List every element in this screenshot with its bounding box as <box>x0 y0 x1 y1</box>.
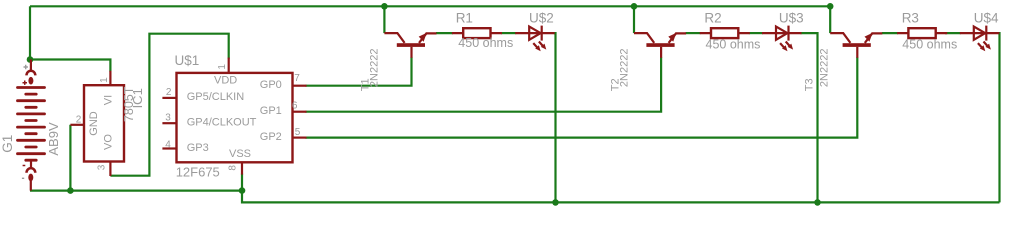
svg-text:4: 4 <box>165 140 171 151</box>
U$1 pin 3 stub <box>162 122 176 124</box>
wire IC1 GND drop <box>69 125 71 191</box>
svg-text:R1: R1 <box>456 11 473 26</box>
svg-text:GP2: GP2 <box>260 131 282 143</box>
U$1 pin 8 VSS stub <box>241 162 243 174</box>
svg-text:U$4: U$4 <box>974 11 999 26</box>
wire U$4 cathode down to rail <box>998 33 999 202</box>
T1 base lead <box>410 47 412 58</box>
svg-text:1: 1 <box>99 77 110 83</box>
svg-text:450 ohms: 450 ohms <box>706 38 761 52</box>
IC1 box <box>84 85 124 161</box>
wire rail to T1 collector <box>383 6 385 33</box>
svg-text:R2: R2 <box>704 11 721 26</box>
T1 base bar <box>397 43 425 47</box>
wire IC1 VO to U$1 VDD <box>110 34 228 176</box>
U$2 light arrow heads <box>535 45 541 51</box>
battery G1 top terminal <box>30 60 32 72</box>
junction battery plus <box>27 56 34 63</box>
U$1 pin 6 stub <box>293 111 307 113</box>
battery plus mark gray <box>24 65 28 69</box>
U$1 pin 7 stub <box>293 85 307 87</box>
junction T1 collector rail <box>381 3 388 10</box>
U$1 PIC 12F675 <box>162 58 306 175</box>
svg-text:450 ohms: 450 ohms <box>902 38 957 52</box>
svg-text:GP3: GP3 <box>187 142 209 154</box>
svg-text:IC1: IC1 <box>130 88 145 108</box>
svg-text:R3: R3 <box>902 11 919 26</box>
junction ground U$1 VSS <box>239 187 246 194</box>
IC1 pin 3 VO stub <box>109 162 111 177</box>
svg-text:450 ohms: 450 ohms <box>458 36 513 50</box>
resistor R1 <box>452 28 502 38</box>
R1 leads <box>452 32 502 34</box>
IC1 7805 regulator <box>70 71 124 176</box>
svg-text:G1: G1 <box>0 135 15 153</box>
svg-text:3: 3 <box>97 164 108 170</box>
wire T2 emitter to R2 <box>686 32 701 34</box>
T1 collector lead <box>384 33 404 43</box>
battery plus mark red <box>23 81 28 85</box>
wire R1 to U$2 <box>501 32 516 34</box>
svg-text:6: 6 <box>292 101 298 112</box>
junction ground U$2 <box>552 199 559 206</box>
wire bottom ground rail left <box>30 190 242 192</box>
battery G1 plates <box>18 88 45 161</box>
U$1 pin 5 stub <box>293 137 307 139</box>
U$1 pin 4 stub <box>162 147 176 149</box>
U$1 pin 1 VDD stub <box>228 58 230 73</box>
battery G1 bottom terminal <box>30 160 32 167</box>
svg-text:GND: GND <box>88 111 100 136</box>
svg-text:U$1: U$1 <box>175 53 200 68</box>
wire R3 to U$4 <box>945 32 961 34</box>
svg-text:5: 5 <box>295 127 301 138</box>
svg-text:VI: VI <box>102 95 114 105</box>
wire top +V rail <box>30 5 830 7</box>
svg-text:12F675: 12F675 <box>176 165 220 180</box>
wire battery plus to IC1 VI <box>30 60 110 72</box>
svg-text:VSS: VSS <box>229 148 251 160</box>
transistor T3 <box>830 33 882 58</box>
svg-text:U$3: U$3 <box>779 11 804 26</box>
IC1 pin 2 GND stub <box>70 124 84 126</box>
svg-text:2N2222: 2N2222 <box>368 49 380 88</box>
LED U$4 <box>960 26 1000 52</box>
wire R2 to U$3 <box>749 32 763 34</box>
svg-text:2: 2 <box>76 115 82 126</box>
U$2 cathode bar <box>541 26 543 41</box>
T1 emitter lead <box>419 33 437 43</box>
junction T2 collector rail <box>631 3 638 10</box>
svg-text:T3: T3 <box>804 78 816 91</box>
wire GP2 to T3 base <box>306 57 858 137</box>
resistor R2 <box>700 28 750 38</box>
resistor R3 <box>897 28 947 38</box>
T1 emitter arrow <box>419 33 427 42</box>
svg-text:3: 3 <box>165 112 171 123</box>
svg-text:2N2222: 2N2222 <box>818 49 830 88</box>
svg-text:GP0: GP0 <box>260 79 282 91</box>
svg-text:AB9V: AB9V <box>46 122 61 156</box>
junction ground IC1 <box>67 187 74 194</box>
wire rail to T2 collector <box>633 6 635 33</box>
BATTERY G1 <box>18 60 45 191</box>
U$2 diode triangle <box>529 27 540 40</box>
wire U$2 cathode down to rail <box>554 33 556 202</box>
transistor T1 <box>384 33 436 58</box>
wire U$3 cathode down to rail <box>801 33 818 202</box>
R1 body <box>463 28 490 38</box>
svg-text:GP1: GP1 <box>260 105 282 117</box>
wire GP1 to T2 base <box>306 57 662 111</box>
U$1 box <box>177 73 293 162</box>
wire T3 emitter to R3 <box>882 32 898 34</box>
battery minus mark red <box>23 165 26 167</box>
svg-text:GP5/CLKIN: GP5/CLKIN <box>187 91 245 103</box>
svg-text:GP4/CLKOUT: GP4/CLKOUT <box>187 117 257 129</box>
svg-text:8: 8 <box>228 165 239 171</box>
U$2 light arrow shafts <box>533 42 543 48</box>
U$1 pin 2 stub <box>162 97 176 99</box>
transistor T2 <box>634 33 686 58</box>
wire T1 emitter to R1 <box>436 32 453 34</box>
U$2 anode/cathode leads <box>515 32 555 34</box>
wire battery plus riser <box>29 6 31 59</box>
svg-text:U$2: U$2 <box>529 11 554 26</box>
LED U$3 <box>762 26 802 52</box>
svg-text:VO: VO <box>103 134 115 150</box>
svg-text:2N2222: 2N2222 <box>619 49 631 88</box>
LED U$2 <box>515 26 555 52</box>
junction T3 collector rail <box>827 3 834 10</box>
junction ground U$3 <box>814 199 821 206</box>
battery minus mark gray <box>22 177 24 179</box>
wire GP0 to T1 base <box>306 57 412 85</box>
IC1 pin 1 VI stub <box>109 71 111 85</box>
svg-text:7: 7 <box>294 73 300 84</box>
wire rail to T3 collector <box>829 6 831 33</box>
svg-text:1: 1 <box>217 64 228 70</box>
wire bottom ground rail right <box>242 191 1000 203</box>
svg-text:VDD: VDD <box>214 75 237 87</box>
wire U$1 VSS down <box>241 174 243 191</box>
svg-text:2: 2 <box>166 87 172 98</box>
